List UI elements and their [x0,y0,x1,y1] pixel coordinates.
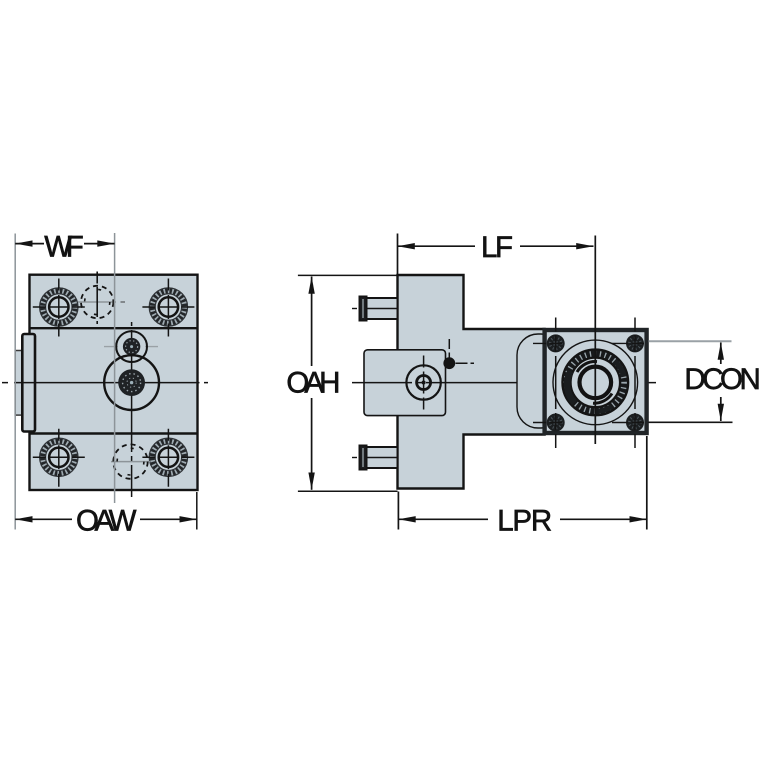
bolt hole top-right [142,279,194,337]
dimension WF [15,230,114,529]
hidden thread circle bottom [111,444,150,478]
bolt hole bottom-left [33,429,85,487]
svg-text:DCON: DCON [684,363,761,396]
vertical centerline left view [131,322,133,497]
big circle (boss) [104,355,159,410]
dimension LPR [398,436,646,537]
coupling bore [580,367,612,399]
housing circle vertical centerline [423,356,425,410]
svg-text:OAW: OAW [76,504,137,537]
small circle serrated core [123,338,140,355]
horizontal centerline left view [2,382,208,384]
svg-text:LPR: LPR [497,504,552,537]
band separator upper [30,327,198,329]
dimension OAH [286,275,397,491]
hidden thread circle top [78,272,125,325]
flange bolt row dashes top [533,342,644,344]
flange bolt top-left [547,334,565,352]
bottom pin [352,446,398,470]
svg-text:WF: WF [44,230,84,263]
big circle serrated core [118,369,145,396]
stop pin (black dot) [443,357,455,369]
left outer tab [15,351,23,416]
housing circle [406,365,440,399]
flange bolt top-right [626,334,644,352]
coupling outer thin circle [553,340,638,425]
flange bolt column centerline left [555,318,557,449]
dimension LF [398,231,594,275]
flange bolt bottom-left [547,414,565,432]
flange bolt row dashes bottom [533,422,644,424]
stop pin centerlines [448,339,450,359]
coupling housing lobe [517,334,562,428]
flange plate [545,330,647,433]
horizontal centerline right view [352,382,656,384]
left inner tab [22,334,35,432]
svg-text:OAH: OAH [286,366,340,399]
top pin [352,297,398,321]
flange bolt column centerline right [634,318,636,449]
svg-text:LF: LF [481,231,513,264]
dimension DCON [649,341,761,422]
coupling serrated ring [567,354,625,412]
body column with step [398,275,545,489]
dimension OAW [15,492,197,537]
block body [30,275,198,490]
flange bolt bottom-right [626,414,644,432]
housing block (left square) [364,350,446,416]
bolt hole bottom-right [142,429,194,487]
small circle (screw) [116,331,147,362]
coupling vertical centerline [594,236,596,445]
hidden dashes beside small circle [104,346,158,348]
band separator lower [30,432,198,434]
bolt hole top-left [33,279,85,337]
